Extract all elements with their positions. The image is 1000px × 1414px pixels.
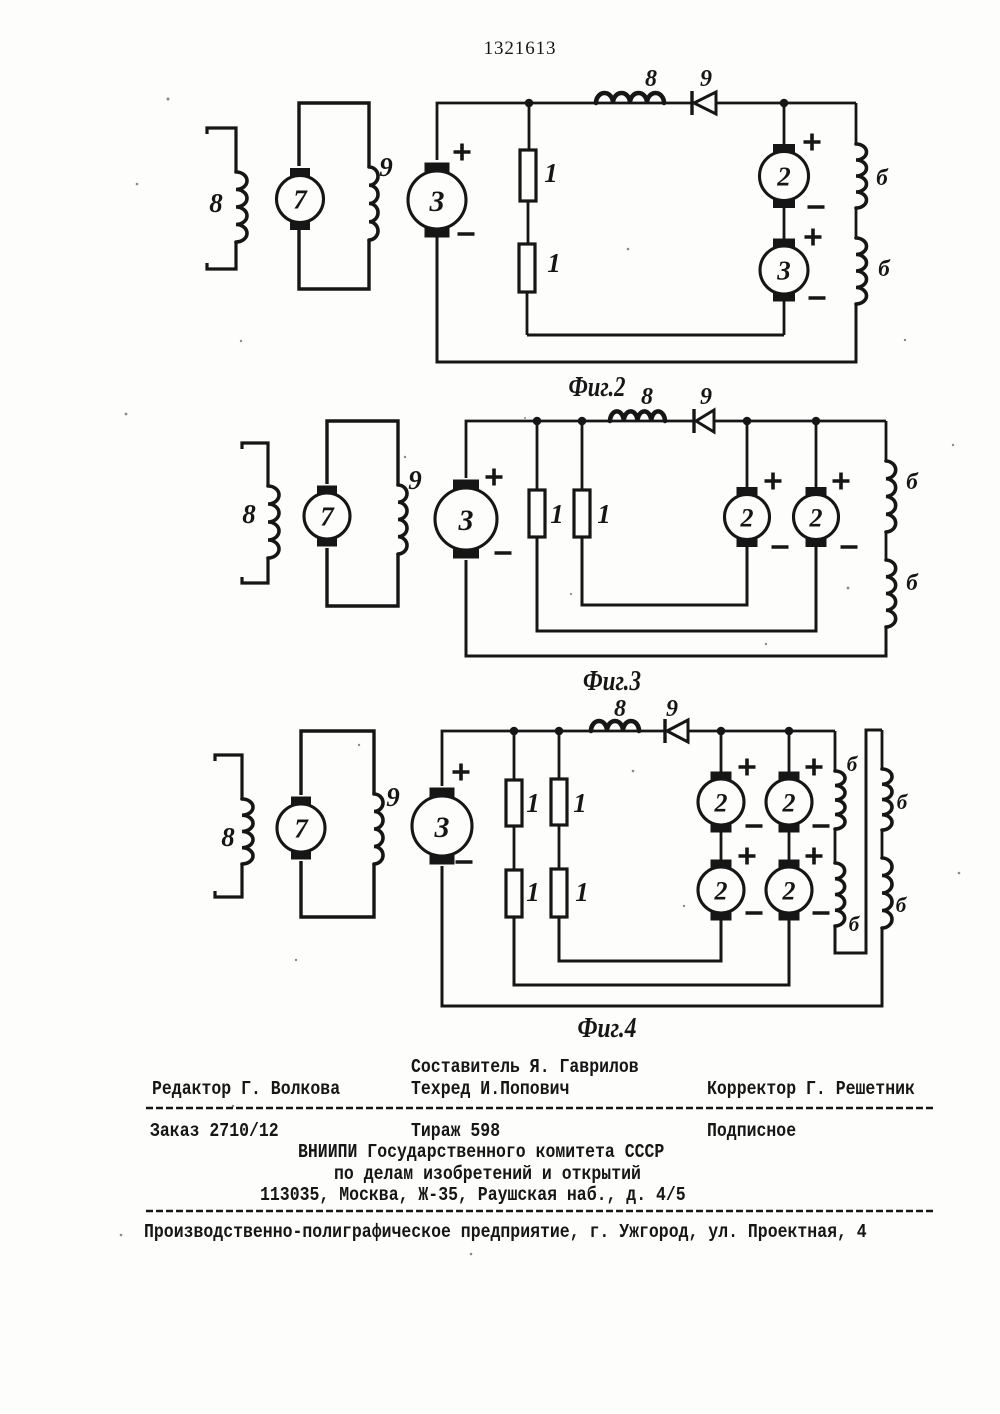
wire fig3 R1 drop xyxy=(536,421,539,490)
fig2 generator 7 xyxy=(290,168,310,177)
fig4 generator 7 xyxy=(291,797,311,806)
svg-text:б: б xyxy=(876,165,889,190)
wire fig3 R1-motor2b loop xyxy=(537,537,816,631)
wire fig4 outer bottom xyxy=(442,866,882,1006)
wire fig4 chain1 mid xyxy=(513,826,516,870)
fig4 node R2 xyxy=(555,727,564,736)
wire fig2 inner bottom xyxy=(527,334,784,337)
svg-text:3: 3 xyxy=(458,504,474,537)
fig3 plus of motor 2 right xyxy=(833,473,850,490)
fig4 smoothing inductor 8 xyxy=(591,721,639,731)
fig4 winding 6 (rail A lower) xyxy=(835,863,845,926)
wire fig4 chain1-right column xyxy=(514,916,789,985)
svg-text:б: б xyxy=(847,752,859,776)
svg-text:2: 2 xyxy=(740,503,754,532)
wire fig4 rail B mid xyxy=(881,830,884,858)
wire fig4 motors tr drop xyxy=(788,731,791,773)
wire fig2 top left segment xyxy=(437,103,692,160)
svg-text:113035, Москва, Ж-35, Раушская: 113035, Москва, Ж-35, Раушская наб., д. … xyxy=(260,1184,686,1206)
wire fig2 motor3 down xyxy=(783,296,786,335)
fig2 resistor 1 (lower) xyxy=(519,244,535,292)
svg-text:8: 8 xyxy=(641,384,653,410)
fig2 minus of motor 3 xyxy=(458,232,475,236)
fig4 wire loop of exciter xyxy=(301,731,374,795)
fig2 minus of lower motor 3 xyxy=(809,296,826,300)
wire fig4 motors tl drop xyxy=(720,731,723,773)
fig4 motor 2 (top left) xyxy=(711,772,732,781)
svg-text:8: 8 xyxy=(221,822,235,852)
fig4 resistor 1 (chain2 lower) xyxy=(551,869,567,917)
fig4 minus motor2 bl xyxy=(746,911,763,915)
svg-text:Тираж 598: Тираж 598 xyxy=(411,1120,500,1142)
svg-text:3: 3 xyxy=(776,256,791,286)
fig4 plus motor2 bl xyxy=(739,848,756,865)
svg-text:1: 1 xyxy=(544,158,558,188)
fig2 plus of motor 2 xyxy=(804,134,821,151)
svg-text:Корректор Г. Решетник: Корректор Г. Решетник xyxy=(707,1078,915,1100)
svg-text:Подписное: Подписное xyxy=(707,1120,796,1142)
svg-text:б: б xyxy=(906,469,919,494)
fig4 plus of motor 3 xyxy=(453,764,470,781)
svg-text:9: 9 xyxy=(408,465,422,495)
fig4 minus motor2 br xyxy=(813,911,830,915)
fig4 plus motor2 tr xyxy=(806,759,823,776)
fig2 minus of motor 2 xyxy=(808,205,825,209)
svg-text:1: 1 xyxy=(575,877,589,907)
fig4 node R1 xyxy=(510,727,519,736)
fig3 motor 2 (right) xyxy=(806,487,827,496)
fig4 winding 6 (rail B lower) xyxy=(882,858,892,928)
svg-text:Заказ 2710/12: Заказ 2710/12 xyxy=(150,1120,279,1142)
svg-text:1321613: 1321613 xyxy=(484,38,557,59)
svg-text:8: 8 xyxy=(614,696,626,722)
wire fig3 top left segment xyxy=(466,421,694,478)
fig3 wire loop of exciter xyxy=(327,421,398,485)
wire fig3 rail mid xyxy=(885,532,888,560)
fig3 minus of motor 2 right xyxy=(841,545,858,549)
svg-text:1: 1 xyxy=(547,248,561,278)
wire fig2 rail bottom + outer bottom xyxy=(437,237,856,362)
fig4 winding 9 xyxy=(374,794,383,864)
wire fig4 left column mid xyxy=(720,828,723,862)
fig3 motor 3 (source) xyxy=(453,480,479,490)
wire fig2 resistor drop xyxy=(528,103,531,150)
svg-text:7: 7 xyxy=(294,814,309,844)
svg-text:9: 9 xyxy=(700,66,712,92)
wire fig2 between resistors xyxy=(527,201,530,244)
svg-text:2: 2 xyxy=(714,876,728,905)
fig2 diode 9 xyxy=(690,91,693,115)
fig4 winding 6 (rail B upper) xyxy=(882,769,892,830)
fig4 motor 3 (source) xyxy=(430,788,455,798)
fig4 minus motor2 tl xyxy=(746,824,763,828)
fig3 plus of motor 2 left xyxy=(765,473,782,490)
svg-text:Составитель Я. Гаврилов: Составитель Я. Гаврилов xyxy=(411,1056,639,1078)
fig3 motor 2 (left) xyxy=(737,487,758,496)
svg-text:Фиг.2: Фиг.2 xyxy=(569,372,626,403)
svg-text:б: б xyxy=(897,790,909,814)
svg-text:8: 8 xyxy=(645,66,657,92)
wire fig4 rail A top xyxy=(834,731,837,771)
fig4 node motors left xyxy=(717,727,726,736)
wire fig2 rail mid xyxy=(855,208,858,238)
fig3 node motor2b xyxy=(812,417,821,426)
wire fig4 rail A return up xyxy=(835,730,882,953)
svg-text:б: б xyxy=(896,893,908,917)
wire fig4 rail A mid xyxy=(834,829,837,863)
fig3 smoothing inductor 8 xyxy=(610,411,665,421)
fig4 winding 6 (rail A upper) xyxy=(835,771,845,829)
svg-text:1: 1 xyxy=(526,877,540,907)
fig4 resistor 1 (chain2 upper) xyxy=(551,779,567,825)
fig2 winding 8 (excitation coil, open leads) xyxy=(207,128,236,172)
fig3 generator 7 xyxy=(317,486,337,495)
fig2 resistor 1 (upper) xyxy=(520,150,536,201)
wire fig4 top left segment xyxy=(442,731,665,786)
svg-text:2: 2 xyxy=(809,503,823,532)
svg-text:Редактор Г. Волкова: Редактор Г. Волкова xyxy=(152,1078,340,1100)
fig2 wire loop of exciter (rectangle) xyxy=(299,103,369,167)
fig3 minus of motor 2 left xyxy=(772,545,789,549)
fig4 minus of motor 3 xyxy=(456,860,473,864)
fig3 winding 8 (open leads) xyxy=(242,443,268,486)
svg-text:9: 9 xyxy=(386,782,400,812)
wire fig4 chain2-left column xyxy=(559,916,721,961)
fig3 resistor 1 (left) xyxy=(529,490,545,537)
wire fig3 R2-motor2a loop xyxy=(582,537,747,605)
fig4 plus motor2 br xyxy=(806,848,823,865)
wire fig3 rail top xyxy=(885,421,888,461)
fig3 winding 6 (upper) xyxy=(886,461,896,532)
svg-text:б: б xyxy=(878,256,891,281)
fig2 plus of lower motor 3 xyxy=(805,229,822,246)
fig3 node motor2a xyxy=(743,417,752,426)
svg-text:2: 2 xyxy=(782,788,796,817)
fig2 node at resistor tap xyxy=(525,99,534,108)
fig4 diode 9 xyxy=(663,719,666,743)
fig4 motor 2 (top right) xyxy=(779,772,800,781)
fig3 node R1 xyxy=(533,417,542,426)
wire fig3 top right segment xyxy=(714,420,886,423)
svg-text:2: 2 xyxy=(714,788,728,817)
svg-text:8: 8 xyxy=(242,499,256,529)
fig2 winding 6 (upper) xyxy=(856,144,867,208)
wire fig2 top right segment xyxy=(716,102,856,105)
fig2 plus of motor 3 xyxy=(454,144,471,161)
fig4 resistor 1 (chain1 lower) xyxy=(506,870,522,917)
fig3 winding 6 (lower) xyxy=(886,560,896,627)
svg-text:ВНИИПИ Государственного комите: ВНИИПИ Государственного комитета СССР xyxy=(298,1141,664,1163)
footer dashed rule 1 xyxy=(146,1107,934,1109)
fig2 winding 9 xyxy=(369,167,378,240)
svg-text:б: б xyxy=(906,570,919,595)
fig2 motor 2 xyxy=(773,144,795,153)
svg-text:Фиг.4: Фиг.4 xyxy=(578,1013,637,1044)
svg-text:9: 9 xyxy=(379,152,393,182)
fig4 motor 2 (bottom right) xyxy=(779,860,800,869)
wire fig2 resistor to bottom xyxy=(526,292,529,335)
svg-text:2: 2 xyxy=(782,876,796,905)
wire fig3 R2 drop xyxy=(581,421,584,490)
wire fig4 chain1 drop xyxy=(513,731,516,780)
wire fig4 chain2 drop xyxy=(558,731,561,779)
fig2 smoothing inductor 8 xyxy=(596,93,664,103)
svg-text:3: 3 xyxy=(434,811,450,844)
fig2 winding 6 (lower) xyxy=(856,238,867,304)
wire fig2 motor2 to motor3 xyxy=(783,202,786,244)
wire fig2 rail top xyxy=(855,103,858,144)
fig3 plus of motor 3 xyxy=(486,469,503,486)
fig3 minus of motor 3 xyxy=(495,551,512,555)
svg-text:9: 9 xyxy=(700,384,712,410)
svg-text:9: 9 xyxy=(666,696,678,722)
svg-text:Фиг.3: Фиг.3 xyxy=(583,666,641,697)
wire fig2 branch to motor 2 xyxy=(783,103,786,147)
svg-text:1: 1 xyxy=(526,788,540,818)
svg-text:по делам изобретений и открыти: по делам изобретений и открытий xyxy=(334,1163,641,1185)
fig3 node R2 xyxy=(578,417,587,426)
fig2 motor 3 (lower) xyxy=(773,239,795,248)
svg-text:8: 8 xyxy=(209,188,223,218)
wire fig3 outer bottom xyxy=(466,560,886,656)
svg-text:Производственно-полиграфическо: Производственно-полиграфическое предприя… xyxy=(144,1221,867,1243)
svg-text:7: 7 xyxy=(293,185,308,215)
fig3 diode 9 xyxy=(692,409,695,433)
fig4 minus motor2 tr xyxy=(813,824,830,828)
svg-text:1: 1 xyxy=(573,788,587,818)
svg-text:7: 7 xyxy=(320,502,335,532)
fig2 node at motor branch xyxy=(780,99,789,108)
svg-text:2: 2 xyxy=(776,162,791,192)
fig4 winding 8 (open leads) xyxy=(215,755,242,799)
svg-text:3: 3 xyxy=(429,185,445,218)
wire fig4 chain2 mid xyxy=(558,825,561,869)
fig4 plus motor2 tl xyxy=(739,759,756,776)
svg-text:б: б xyxy=(849,912,861,936)
wire fig3 motor2a drop xyxy=(746,421,749,489)
svg-text:Техред И.Попович: Техред И.Попович xyxy=(411,1078,569,1100)
wire fig3 motor2b drop xyxy=(815,421,818,489)
footer dashed rule 2 xyxy=(146,1210,934,1212)
svg-text:1: 1 xyxy=(550,499,564,529)
fig4 node motors right xyxy=(785,727,794,736)
fig4 motor 2 (bottom left) xyxy=(711,860,732,869)
wire fig4 rail B top xyxy=(881,730,884,769)
fig3 winding 9 xyxy=(398,485,407,554)
fig4 resistor 1 (chain1 upper) xyxy=(506,780,522,826)
wire fig4 right column mid xyxy=(788,828,791,862)
svg-text:1: 1 xyxy=(597,499,611,529)
fig3 resistor 1 (right) xyxy=(574,490,590,537)
fig2 motor 3 (source) xyxy=(425,163,450,173)
wire fig4 top right segment xyxy=(688,730,835,733)
